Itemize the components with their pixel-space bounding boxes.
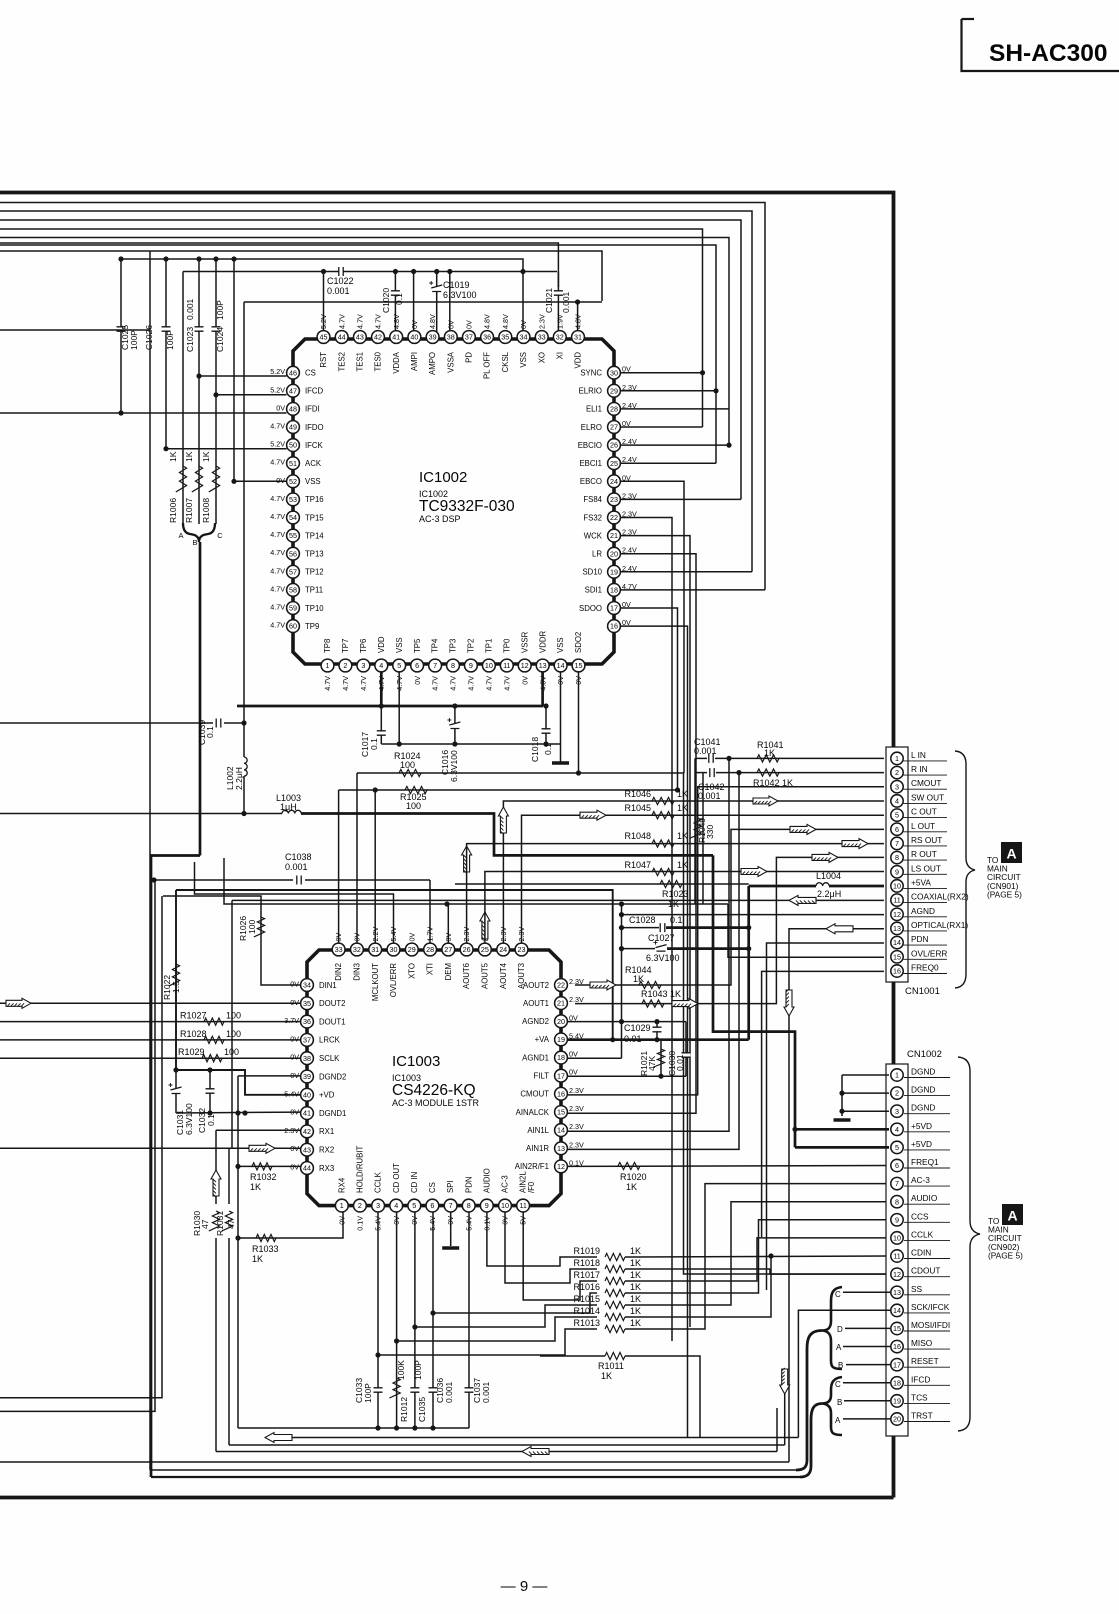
svg-text:33: 33 xyxy=(538,333,546,342)
wire CS stub xyxy=(199,375,287,377)
IC1002 pin 41 VDDA xyxy=(390,331,403,344)
svg-text:RESET: RESET xyxy=(911,1356,939,1366)
wire AGND2 line xyxy=(568,1021,686,1023)
svg-text:DIN3: DIN3 xyxy=(353,963,362,981)
svg-text:20: 20 xyxy=(893,1415,901,1424)
wire vertical VDD drop to rail xyxy=(243,302,245,706)
IC1002 pin 11 TP0 xyxy=(500,659,513,672)
IC1003 pin 20 AGND2 xyxy=(555,1015,568,1028)
svg-text:TRST: TRST xyxy=(911,1411,933,1421)
svg-text:2.2V: 2.2V xyxy=(371,927,380,942)
svg-text:MCLKOUT: MCLKOUT xyxy=(371,963,380,1001)
svg-text:4.7V: 4.7V xyxy=(341,676,350,691)
svg-text:VDD: VDD xyxy=(377,636,386,653)
svg-text:VSSA: VSSA xyxy=(446,351,455,373)
svg-text:9: 9 xyxy=(895,1215,899,1224)
svg-text:C: C xyxy=(217,531,223,540)
IC1002 pin 35 CKSL xyxy=(499,331,512,344)
svg-text:25: 25 xyxy=(610,459,618,468)
svg-text:0V: 0V xyxy=(465,320,474,329)
svg-text:100: 100 xyxy=(400,760,415,770)
wire FILT line xyxy=(568,1075,686,1077)
svg-text:26: 26 xyxy=(610,441,618,450)
arrow left COAXIAL xyxy=(789,895,816,905)
svg-text:0V: 0V xyxy=(353,933,362,942)
wire R1015 to AUDIO xyxy=(625,1202,889,1305)
wire IC1002 right pin stubs to bus xyxy=(621,589,766,591)
svg-text:30: 30 xyxy=(390,945,398,954)
resistor R1013 xyxy=(605,1325,625,1332)
wire pin16 route down xyxy=(621,626,688,1437)
svg-text:29: 29 xyxy=(610,386,618,395)
CN1001 pin 11 COAXIAL(RX2) xyxy=(904,902,948,904)
wire +5VD pin5 thick xyxy=(795,1146,889,1149)
arrow up AOUT5 xyxy=(480,912,490,939)
svg-text:5.2V: 5.2V xyxy=(319,314,328,329)
IC1003 pin 10 AC-3 xyxy=(499,1199,512,1212)
svg-text:TP2: TP2 xyxy=(467,639,476,653)
svg-text:8: 8 xyxy=(895,853,899,862)
arrow right AOUT2 xyxy=(590,980,616,990)
IC1002 pin 26 EBCIO xyxy=(608,439,621,452)
resistor R1024 net xyxy=(357,772,684,774)
svg-text:24: 24 xyxy=(610,477,618,486)
CN1002 pin 13 SS xyxy=(904,1294,950,1296)
svg-text:1: 1 xyxy=(895,754,899,763)
svg-text:FREQ0: FREQ0 xyxy=(911,963,939,973)
CN1001 pin 1 L IN xyxy=(904,760,948,762)
IC1002 pin 20 LR xyxy=(608,547,621,560)
CN1002 brace right xyxy=(958,1057,980,1431)
svg-text:44: 44 xyxy=(303,1164,311,1173)
CN1001 pin 3 CMOUT xyxy=(904,788,948,790)
svg-text:0.001: 0.001 xyxy=(185,298,195,320)
svg-text:1K: 1K xyxy=(764,748,775,758)
svg-text:MOSI/IFDI: MOSI/IFDI xyxy=(911,1320,950,1330)
svg-text:1: 1 xyxy=(340,1201,344,1210)
svg-text:R1031: R1031 xyxy=(215,1211,225,1236)
IC1002 pin 13 VDDR xyxy=(536,659,549,672)
svg-text:4.7V: 4.7V xyxy=(270,548,285,557)
svg-text:34: 34 xyxy=(520,333,528,342)
wire DGND vertical to bottom xyxy=(237,1113,239,1428)
svg-text:16: 16 xyxy=(557,1089,565,1098)
svg-text:CKSL: CKSL xyxy=(501,351,510,372)
wire cable trunk down xyxy=(199,542,202,856)
IC1002 pin 14 VSS xyxy=(554,659,567,672)
svg-text:CS: CS xyxy=(305,369,316,378)
resistor R1029 xyxy=(0,1057,301,1059)
svg-text:0V: 0V xyxy=(622,365,631,374)
svg-text:IFCD: IFCD xyxy=(911,1374,930,1384)
IC1002 pin 7 TP4 xyxy=(429,659,442,672)
svg-text:AOUT2: AOUT2 xyxy=(523,981,549,990)
cable brace C B A lower xyxy=(822,1377,842,1435)
wire DGND pins 1-3 to ground xyxy=(842,1074,889,1076)
svg-text:1K: 1K xyxy=(630,1246,641,1256)
svg-text:100: 100 xyxy=(247,920,257,934)
svg-text:59: 59 xyxy=(289,604,297,613)
svg-text:SDOO: SDOO xyxy=(579,604,602,613)
svg-text:TP1: TP1 xyxy=(485,639,494,653)
svg-text:VSS: VSS xyxy=(519,352,528,368)
CN1002 pin 19 TCS xyxy=(904,1402,950,1404)
svg-text:46: 46 xyxy=(289,368,297,377)
svg-text:55: 55 xyxy=(289,531,297,540)
svg-text:58: 58 xyxy=(289,586,297,595)
ground CN1002 xyxy=(834,1118,851,1121)
resistor R1047 LS OUT xyxy=(485,872,884,944)
svg-text:1K: 1K xyxy=(630,1270,641,1280)
IC1003 pin 7 SPI xyxy=(444,1199,457,1212)
wire 0V distribution line y259 xyxy=(121,259,523,331)
svg-text:IFCK: IFCK xyxy=(305,441,324,450)
svg-text:R1016: R1016 xyxy=(573,1282,600,1292)
capacitor C1021 xyxy=(557,272,559,331)
svg-text:23: 23 xyxy=(610,495,618,504)
svg-text:R1043 1K: R1043 1K xyxy=(641,989,681,999)
svg-text:5.2V: 5.2V xyxy=(270,440,285,449)
svg-text:2.3V: 2.3V xyxy=(569,995,584,1004)
svg-text:VSS: VSS xyxy=(556,637,565,653)
op-amp IC1003 body outline CS4226-KQ AC-3 MODULE 1STR xyxy=(307,950,561,1206)
svg-text:5.4V: 5.4V xyxy=(389,927,398,942)
wire COAXIAL line xyxy=(232,899,884,901)
svg-text:TP16: TP16 xyxy=(305,495,324,504)
cable trunk 1 thick xyxy=(796,1331,822,1471)
svg-text:47: 47 xyxy=(200,1219,210,1229)
svg-text:L IN: L IN xyxy=(911,750,926,760)
svg-text:2.3V: 2.3V xyxy=(569,1086,584,1095)
svg-text:12: 12 xyxy=(893,1270,901,1279)
svg-text:28: 28 xyxy=(426,945,434,954)
svg-text:4.7V: 4.7V xyxy=(502,676,511,691)
svg-text:ACK: ACK xyxy=(305,459,322,468)
svg-text:1K: 1K xyxy=(630,1318,641,1328)
wire CS branch xyxy=(433,1293,597,1313)
svg-text:100P: 100P xyxy=(363,1383,373,1403)
IC1003 pin 3 CCLK xyxy=(372,1199,385,1212)
IC1002 pin 12 VSSR xyxy=(518,659,531,672)
svg-text:R1007: R1007 xyxy=(184,498,194,523)
svg-text:0.1: 0.1 xyxy=(369,738,379,750)
svg-text:DOUT1: DOUT1 xyxy=(319,1017,345,1026)
svg-text:R1012: R1012 xyxy=(399,1397,409,1422)
wire SCK/IFCK from bus xyxy=(798,1310,890,1437)
svg-text:0V: 0V xyxy=(407,933,416,942)
svg-text:TC9332F-030: TC9332F-030 xyxy=(419,498,515,515)
wire R1014 riser xyxy=(625,1256,771,1317)
svg-text:10: 10 xyxy=(485,661,493,670)
svg-text:1K: 1K xyxy=(601,1371,612,1381)
svg-text:14: 14 xyxy=(557,1126,565,1135)
svg-text:18: 18 xyxy=(557,1053,565,1062)
svg-text:31: 31 xyxy=(574,333,582,342)
svg-text:0V: 0V xyxy=(290,980,299,989)
wire AGND stub xyxy=(622,914,885,916)
svg-text:CDOUT: CDOUT xyxy=(911,1266,941,1276)
IC1002 pin 9 TP2 xyxy=(465,659,478,672)
IC1003 pin 1 RX4 xyxy=(335,1199,348,1212)
svg-text:R1045: R1045 xyxy=(624,803,651,813)
svg-text:34: 34 xyxy=(303,981,311,990)
svg-text:2.4V: 2.4V xyxy=(622,564,637,573)
svg-text:R1017: R1017 xyxy=(573,1270,600,1280)
svg-text:VSSR: VSSR xyxy=(520,631,529,653)
svg-text:R1032: R1032 xyxy=(250,1172,277,1182)
wire OVL/ERR feed line xyxy=(195,862,394,943)
IC1003 pin 26 AOUT6 xyxy=(460,943,473,956)
svg-text:1K: 1K xyxy=(250,1182,261,1192)
capacitor C1016 xyxy=(454,706,456,744)
svg-text:TP14: TP14 xyxy=(305,531,324,540)
CN1002 pin 8 AUDIO xyxy=(904,1203,950,1205)
svg-text:CCS: CCS xyxy=(911,1211,929,1221)
svg-text:WCK: WCK xyxy=(584,531,603,540)
wire CMOUT to CN1001 xyxy=(568,787,884,1095)
resistor R1049 xyxy=(691,818,702,838)
svg-text:1.7V: 1.7V xyxy=(426,927,435,942)
svg-text:2.3V: 2.3V xyxy=(569,1104,584,1113)
svg-text:1K: 1K xyxy=(252,1254,263,1264)
wire R1013 to AC-3 pin7 xyxy=(625,1184,889,1329)
resistor R1014 xyxy=(605,1313,625,1320)
title block frame xyxy=(962,19,1119,71)
svg-text:XTI: XTI xyxy=(426,963,435,975)
wire R1019 to CDIN xyxy=(625,1256,889,1257)
svg-text:2.4V: 2.4V xyxy=(622,455,637,464)
svg-text:VSS: VSS xyxy=(395,637,404,653)
svg-text:R1013: R1013 xyxy=(573,1318,600,1328)
IC1002 pin 52 VSS xyxy=(287,475,300,488)
svg-text:5.2V: 5.2V xyxy=(270,385,285,394)
IC1002 pin 29 ELRIO xyxy=(608,384,621,397)
svg-text:EBCI1: EBCI1 xyxy=(579,459,602,468)
svg-text:5: 5 xyxy=(895,1143,899,1152)
svg-text:RX3: RX3 xyxy=(319,1164,334,1173)
svg-text:0.1: 0.1 xyxy=(543,743,553,755)
svg-text:DGND: DGND xyxy=(911,1103,935,1113)
svg-text:C OUT: C OUT xyxy=(911,807,937,817)
IC1002 pin 1 TP8 xyxy=(321,659,334,672)
IC1003 pin 21 AOUT1 xyxy=(555,997,568,1010)
svg-text:6.3V100: 6.3V100 xyxy=(443,290,477,300)
svg-text:0V: 0V xyxy=(290,998,299,1007)
resistor R1018 xyxy=(605,1265,625,1272)
svg-text:100K: 100K xyxy=(396,1360,406,1380)
IC1003 pin 43 RX2 xyxy=(301,1143,314,1156)
wire CCLK branch xyxy=(378,1329,597,1355)
svg-text:12: 12 xyxy=(521,661,529,670)
svg-text:0.1: 0.1 xyxy=(670,915,683,925)
svg-text:PDN: PDN xyxy=(464,1177,473,1193)
capacitor C1017 xyxy=(380,706,382,744)
svg-text:1K: 1K xyxy=(168,451,178,462)
svg-text:DIN1: DIN1 xyxy=(319,981,337,990)
wire R1017 to CCLK xyxy=(625,1238,889,1281)
svg-text:8: 8 xyxy=(467,1201,471,1210)
wire IFCD stub xyxy=(216,394,287,396)
svg-text:37: 37 xyxy=(465,333,473,342)
svg-text:TES1: TES1 xyxy=(356,352,365,372)
wire pin13 VDDR drop xyxy=(541,672,544,706)
svg-text:PL OFF: PL OFF xyxy=(483,352,492,379)
svg-text:6: 6 xyxy=(895,825,899,834)
svg-text:ELRIO: ELRIO xyxy=(579,387,602,396)
svg-text:C1029: C1029 xyxy=(624,1023,651,1033)
svg-text:AIN1L: AIN1L xyxy=(527,1126,549,1135)
IC1003 pin 6 CS xyxy=(426,1199,439,1212)
svg-text:4.8V: 4.8V xyxy=(501,314,510,329)
IC1002 pin 19 SD10 xyxy=(608,565,621,578)
IC1002 pin 24 EBCO xyxy=(608,475,621,488)
svg-text:16: 16 xyxy=(610,622,618,631)
svg-text:(PAGE 5): (PAGE 5) xyxy=(988,1250,1023,1260)
svg-text:42: 42 xyxy=(303,1127,311,1136)
svg-text:A: A xyxy=(836,1343,842,1352)
svg-text:0.001: 0.001 xyxy=(444,1381,454,1403)
svg-text:22: 22 xyxy=(610,513,618,522)
svg-text:C1023: C1023 xyxy=(185,327,195,352)
svg-text:LS OUT: LS OUT xyxy=(911,863,941,873)
wire VSS pin52 stub xyxy=(234,480,287,482)
wire C1042 left stub xyxy=(702,773,704,904)
IC1002 pin 34 VSS xyxy=(517,331,530,344)
svg-text:R1011: R1011 xyxy=(598,1361,624,1371)
svg-text:AUDIO: AUDIO xyxy=(482,1168,491,1193)
wire R1016 to CCS xyxy=(625,1220,889,1293)
wire +5V rail thick xyxy=(301,814,713,856)
svg-text:0.1: 0.1 xyxy=(394,293,404,305)
IC1002 pin 3 TP6 xyxy=(357,659,370,672)
wire ground line under IC1003 xyxy=(238,1427,469,1429)
IC1002 pin 33 XO xyxy=(535,331,548,344)
svg-text:2.4V: 2.4V xyxy=(622,401,637,410)
svg-text:R1033: R1033 xyxy=(252,1244,279,1254)
svg-text:VSS: VSS xyxy=(305,477,321,486)
IC1003 pin 2 HOLD/RUBIT xyxy=(354,1199,367,1212)
cable brace A B C xyxy=(183,523,215,542)
svg-text:CS4226-KQ: CS4226-KQ xyxy=(392,1082,476,1099)
svg-text:C1020: C1020 xyxy=(381,288,391,313)
IC1003 pin 44 RX3 xyxy=(301,1162,314,1175)
svg-text:1K: 1K xyxy=(626,1182,637,1192)
capacitor C1033 xyxy=(377,1212,379,1428)
svg-text:4.7V: 4.7V xyxy=(485,676,494,691)
arrow up RX1 xyxy=(211,1170,221,1196)
capacitor C1019 xyxy=(434,269,439,274)
svg-text:1K: 1K xyxy=(201,451,211,462)
svg-text:C1026: C1026 xyxy=(144,325,154,350)
svg-text:0V: 0V xyxy=(276,476,285,485)
svg-text:100P: 100P xyxy=(129,330,139,350)
svg-text:OVL/ERR: OVL/ERR xyxy=(389,963,398,998)
svg-text:6.3V100: 6.3V100 xyxy=(449,750,459,782)
arrow right LS OUT xyxy=(741,867,767,877)
capacitor C1018 xyxy=(545,706,547,744)
CN1001 pin 6 L OUT xyxy=(904,831,948,833)
CN1002 pin 2 DGND xyxy=(904,1095,950,1097)
svg-text:17: 17 xyxy=(557,1071,565,1080)
svg-text:22: 22 xyxy=(557,981,565,990)
svg-text:2: 2 xyxy=(895,1089,899,1098)
IC1003 pin 23 AOUT3 xyxy=(515,943,528,956)
IC1002 pin 54 TP15 xyxy=(287,511,300,524)
IC1002 pin 22 FS32 xyxy=(608,511,621,524)
capacitor C1032 xyxy=(209,1070,211,1113)
svg-text:R IN: R IN xyxy=(911,764,928,774)
resistor R1045 C OUT xyxy=(522,815,885,943)
svg-text:35: 35 xyxy=(303,999,311,1008)
inductor L1002 xyxy=(244,757,247,776)
svg-text:6.3V100: 6.3V100 xyxy=(646,953,680,963)
svg-text:XO: XO xyxy=(537,352,546,363)
resistor R1043 R OUT xyxy=(575,857,884,1003)
svg-text:4.7V: 4.7V xyxy=(323,676,332,691)
svg-text:100: 100 xyxy=(226,1011,241,1021)
resistor R1031 xyxy=(228,1148,230,1204)
wire DGND2 tie xyxy=(238,1075,301,1077)
svg-text:4.7V: 4.7V xyxy=(356,314,365,329)
svg-text:CMOUT: CMOUT xyxy=(911,778,941,788)
svg-text:C1019: C1019 xyxy=(443,280,470,290)
IC1002 pin 59 TP10 xyxy=(287,602,300,615)
wire DOUT2 line xyxy=(0,1002,301,1004)
svg-text:4.7V: 4.7V xyxy=(270,512,285,521)
IC1003 pin 18 AGND1 xyxy=(555,1051,568,1064)
svg-text:3: 3 xyxy=(376,1201,380,1210)
capacitor C1020 xyxy=(393,269,398,274)
svg-text:DEM: DEM xyxy=(444,963,453,980)
svg-text:40: 40 xyxy=(303,1090,311,1099)
svg-text:12: 12 xyxy=(893,910,901,919)
CN1001 pin 16 FREQ0 xyxy=(904,973,948,975)
svg-text:29: 29 xyxy=(408,945,416,954)
svg-text:3: 3 xyxy=(895,1107,899,1116)
svg-text:0V: 0V xyxy=(622,419,631,428)
resistor R1042 xyxy=(757,769,779,776)
wire VDD top line xyxy=(244,301,602,303)
wire AC-3 branch xyxy=(505,1212,597,1283)
svg-text:2: 2 xyxy=(358,1201,362,1210)
junction label A box xyxy=(1001,842,1022,863)
svg-text:— 9 —: — 9 — xyxy=(501,1578,548,1595)
capacitor C1027 xyxy=(657,946,666,951)
IC1002 pin 25 EBCI1 xyxy=(608,457,621,470)
svg-text:R1047: R1047 xyxy=(624,860,651,870)
resistor R1011 xyxy=(605,1352,625,1359)
wire bus line y251 xyxy=(0,251,602,301)
svg-text:AGND: AGND xyxy=(911,906,935,916)
svg-text:13: 13 xyxy=(539,661,547,670)
svg-text:4.7V: 4.7V xyxy=(270,584,285,593)
wire pin24 EBCO long stub xyxy=(621,481,685,773)
resistor R1008 xyxy=(215,395,217,524)
resistor R1015 xyxy=(605,1301,625,1308)
svg-text:AUDIO: AUDIO xyxy=(911,1193,938,1203)
IC1003 pin 17 FILT xyxy=(555,1069,568,1082)
ground SPI pin7 xyxy=(450,1212,452,1246)
svg-text:AC-3: AC-3 xyxy=(911,1175,930,1185)
svg-text:0.001: 0.001 xyxy=(561,291,571,313)
IC1003 pin 4 CD OUT xyxy=(390,1199,403,1212)
svg-text:0.001: 0.001 xyxy=(694,746,717,756)
svg-text:4.7V: 4.7V xyxy=(431,676,440,691)
IC1002 pin 36 PL OFF xyxy=(481,331,494,344)
svg-text:4: 4 xyxy=(895,797,899,806)
svg-text:LR: LR xyxy=(592,550,602,559)
IC1002 pin 47 IFCD xyxy=(287,384,300,397)
